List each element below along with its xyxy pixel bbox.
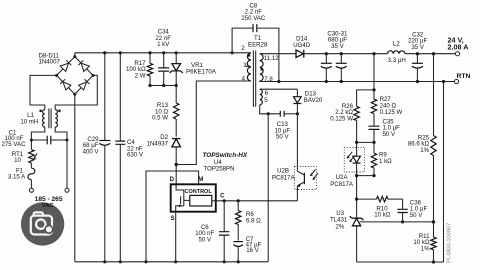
svg-text:0.125 W: 0.125 W — [380, 109, 403, 116]
pin label S — [171, 215, 175, 222]
transformer T1 EER28 — [247, 51, 263, 108]
svg-text:50 V: 50 V — [276, 134, 289, 141]
label R11 10 kOhm 1% — [413, 233, 430, 253]
wire: bias pin 5 to C13 — [260, 105, 281, 114]
RTN terminal — [454, 79, 458, 83]
svg-text:1N4007: 1N4007 — [39, 59, 61, 66]
pin label 2 — [241, 45, 245, 52]
label C8 2.2 nF 250 VAC — [241, 2, 266, 22]
svg-text:10: 10 — [14, 157, 21, 164]
diode D14 UG4D — [296, 50, 304, 58]
svg-text:1N4937: 1N4937 — [147, 140, 169, 147]
svg-text:35 V: 35 V — [331, 43, 344, 50]
inductor L2 3.3 uH — [388, 51, 405, 54]
wire: drain node to D pin of U4 — [175, 165, 177, 185]
svg-text:10 mH: 10 mH — [20, 118, 38, 125]
label U3 TL431 2% — [330, 210, 348, 231]
svg-text:1 kΩ: 1 kΩ — [379, 158, 392, 165]
wire: S pin to primary return rail — [174, 212, 177, 264]
label R6 6.8 Ohm — [246, 211, 261, 224]
svg-text:VAC: VAC — [42, 203, 55, 209]
wire: output line D14 to L2 — [304, 53, 388, 55]
resistor R26 2.2 kOhm 0.125 W — [354, 106, 359, 142]
pin label 7,8 — [264, 76, 273, 83]
svg-text:D: D — [170, 176, 175, 183]
svg-text:M: M — [198, 176, 203, 183]
svg-text:3.3 µH: 3.3 µH — [388, 57, 406, 64]
svg-text:2: 2 — [241, 45, 245, 52]
wire: clamp bottom node R17-C34-VR1 — [148, 84, 176, 87]
pin 3 stub — [246, 65, 251, 67]
wire: down to TL431 cathode — [355, 176, 358, 219]
pin label M — [198, 176, 203, 183]
wire: bridge left AC node to L1 top-left — [30, 75, 57, 109]
svg-text:275 VAC: 275 VAC — [2, 141, 27, 148]
pin label 5 — [264, 97, 268, 104]
svg-text:S: S — [171, 215, 175, 222]
capacitor C7 47 uF 16 V — [233, 242, 243, 264]
pin label 6 — [265, 90, 269, 97]
label R26 2.2 kOhm 0.125 W — [330, 103, 353, 123]
svg-text:RTN: RTN — [457, 73, 471, 80]
wire: DC bus from bridge to transformer pin 2 — [75, 52, 251, 54]
svg-text:1 kV: 1 kV — [157, 41, 170, 48]
svg-text:PC817A: PC817A — [272, 174, 296, 181]
wire: M pin to primary return — [144, 171, 198, 263]
label C6 100 nF 50 V — [195, 224, 214, 244]
label R25 86.6 kOhm 1% — [408, 134, 430, 154]
svg-text:630 V: 630 V — [127, 152, 144, 159]
input terminal left — [29, 188, 33, 192]
label R27 240 Ohm 0.125 W — [380, 96, 403, 116]
svg-text:16 V: 16 V — [246, 247, 259, 254]
capacitor C30 680 uF 35 V — [321, 52, 332, 83]
bridge rectifier D8-D11 1N4007 — [55, 53, 94, 96]
svg-text:EER28: EER28 — [248, 42, 268, 49]
svg-text:UG4D: UG4D — [293, 42, 311, 49]
label D13 BAV20 — [304, 91, 323, 104]
svg-text:3: 3 — [243, 62, 247, 69]
wire: feedback tap from output — [357, 52, 376, 106]
pin label C — [220, 193, 225, 200]
capacitor C4 22 nF 630 V — [115, 51, 125, 263]
svg-text:BAV20: BAV20 — [304, 97, 323, 104]
pin label D — [170, 176, 175, 183]
wire: C pin to opto emitter — [216, 200, 298, 202]
capacitor C34 22 nF 1 kV — [158, 51, 169, 87]
wire: primary return rail — [75, 261, 268, 263]
label C29 68 uF 400 V — [83, 136, 100, 156]
capacitor C35 1.0 uF 50 V — [369, 126, 380, 142]
label R17 100 kOhm 2 W — [126, 60, 146, 80]
svg-text:TOP258PN: TOP258PN — [203, 165, 234, 172]
input terminal right — [65, 188, 69, 192]
label C36 1.0 uF 50 V — [410, 199, 428, 219]
wire: L1 bottom-left to C1 node — [31, 127, 44, 140]
label L2 3.3 uH — [388, 40, 406, 63]
label C4 22 nF 630 V — [127, 139, 144, 159]
pin label 4 — [242, 76, 246, 83]
label D2 1N4937 — [147, 134, 169, 147]
svg-text:L2: L2 — [393, 40, 400, 47]
label D14 UG4D — [293, 36, 311, 49]
wire: bias return to primary rail — [267, 114, 269, 262]
svg-text:400 V: 400 V — [83, 148, 100, 155]
svg-text:1%: 1% — [421, 245, 430, 252]
thermistor RT1 10 — [29, 140, 38, 163]
wire: transformer pin 4 to drain node — [176, 81, 251, 165]
label D8-D11 1N4007 — [39, 52, 61, 65]
wire: output line L2 to terminal — [405, 53, 456, 55]
capacitor C36 1.0 uF 50 V — [397, 199, 407, 223]
label TOPSwitch-HX U4 TOP258PN — [203, 152, 248, 172]
label R9 1 kOhm — [379, 152, 392, 165]
svg-text:11,12: 11,12 — [264, 55, 279, 62]
capacitor C6 100 nF 50 V — [219, 199, 229, 263]
svg-text:2%: 2% — [335, 224, 344, 231]
svg-text:0.125 W: 0.125 W — [330, 115, 353, 122]
resistor R10 10 kOhm — [357, 196, 403, 201]
label 185 - 265 VAC input — [35, 196, 63, 209]
wire: bias pin 6 to D13 — [260, 88, 298, 90]
svg-text:PI-4800-100907: PI-4800-100907 — [447, 223, 453, 263]
junction dot bus pin2 — [231, 51, 234, 54]
svg-text:50 V: 50 V — [199, 236, 212, 243]
resistor R13 10 Ohm 0.5 W — [174, 86, 179, 137]
diode D13 BAV20 — [293, 89, 301, 114]
watermark circle with camera icon — [21, 202, 64, 245]
resistor R27 240 Ohm 0.125 W — [371, 99, 376, 126]
zener VR1 P6KE170A — [170, 51, 183, 87]
svg-text:P6KE170A: P6KE170A — [186, 69, 217, 76]
capacitor C13 10 uF 50 V — [267, 111, 299, 117]
label C32 220 uF 35 V — [408, 31, 427, 51]
resistor R6 6.8 Ohm — [236, 199, 241, 240]
wire: secondary top to D14 anode — [260, 53, 296, 55]
wire: TL431 anode bottom rail to RTN — [357, 80, 446, 262]
capacitor C31 680 uF 35 V — [336, 52, 347, 83]
capacitor C8 2.2 nF 250 VAC — [232, 24, 280, 83]
svg-text:250 VAC: 250 VAC — [241, 15, 266, 22]
wire: bridge negative node down to primary return rail — [74, 94, 76, 262]
svg-text:50 V: 50 V — [383, 131, 396, 138]
label PI-4800-100907 — [447, 223, 453, 263]
svg-text:10 kΩ: 10 kΩ — [374, 212, 391, 219]
pin label 11,12 — [264, 55, 279, 62]
capacitor C32 220 uF 35 V — [412, 52, 423, 83]
label U2A PC817A — [330, 174, 354, 188]
wire: R26/C35 bottoms joined — [355, 141, 376, 144]
resistor R17 100 kOhm 2 W — [147, 51, 152, 85]
svg-text:1%: 1% — [420, 147, 429, 154]
label C30-31 680 uF 35 V — [327, 30, 348, 50]
wire: bridge right AC node to L1 top-right — [55, 75, 97, 109]
IC U4 TOP258PN block — [171, 184, 216, 211]
label C34 22 nF 1 kV — [155, 29, 171, 49]
shunt regulator U3 TL431 2% — [350, 216, 434, 262]
choke L1 10 mH — [39, 109, 60, 129]
label C35 1.0 uF 50 V — [383, 118, 401, 138]
wire: LED cathode and R9 bottom joined — [355, 174, 376, 177]
wire: C13 node down to opto collector — [296, 114, 298, 172]
label T1 EER28 — [248, 35, 268, 48]
optocoupler U2A PC817A LED — [344, 142, 364, 175]
label VR1 P6KE170A — [186, 62, 217, 75]
label F1 3.15 A — [8, 167, 26, 180]
node: drain junction dot — [175, 163, 178, 166]
label 24 V 2.08 A — [448, 35, 469, 51]
resistor R11 10 kOhm 1% — [431, 222, 436, 264]
svg-text:3.15 A: 3.15 A — [8, 174, 26, 181]
label RT1 10 — [12, 151, 24, 164]
label C13 10 uF 50 V — [274, 121, 290, 141]
pin label 3 — [243, 62, 247, 69]
diode D2 1N4937 — [172, 139, 181, 165]
svg-text:50 V: 50 V — [410, 212, 423, 219]
label C1 100 nF 275 VAC — [2, 129, 27, 147]
wire: C1 right node down to right input terminal — [66, 140, 68, 188]
svg-text:CONTROL: CONTROL — [185, 189, 213, 195]
resistor R9 1 kOhm — [371, 142, 376, 175]
resistor R25 86.6 kOhm 1% — [431, 52, 436, 223]
svg-text:C: C — [220, 193, 225, 200]
output terminal 24V — [455, 52, 459, 56]
label U2B PC817A — [272, 167, 296, 181]
capacitor C29 68 uF 400 V — [99, 51, 110, 263]
svg-text:185 - 265: 185 - 265 — [35, 196, 63, 203]
svg-text:TOPSwitch-HX: TOPSwitch-HX — [203, 152, 248, 159]
capacitor C1 100 nF 275 VAC — [30, 136, 69, 145]
wire: L1 bottom-right to C1 right node — [55, 127, 67, 140]
label RTN — [457, 73, 471, 80]
optocoupler U2B PC817A transistor — [294, 167, 318, 190]
svg-text:35 V: 35 V — [411, 44, 424, 51]
fuse F1 3.15 A — [28, 163, 35, 188]
wire: secondary return rail to RTN — [260, 80, 455, 83]
label L1 10 mH — [20, 112, 38, 125]
wire: opto emitter to C pin wire — [296, 186, 298, 201]
label C7 47 uF 16 V — [246, 236, 262, 254]
svg-text:PC817A: PC817A — [330, 181, 354, 188]
svg-text:2 W: 2 W — [135, 72, 146, 79]
label R10 10 kOhm — [374, 205, 391, 218]
label R13 10 Ohm 0.5 W — [152, 102, 169, 122]
svg-text:2.08 A: 2.08 A — [448, 42, 469, 51]
svg-text:0.5 W: 0.5 W — [152, 115, 168, 122]
svg-text:6.8 Ω: 6.8 Ω — [246, 217, 261, 224]
